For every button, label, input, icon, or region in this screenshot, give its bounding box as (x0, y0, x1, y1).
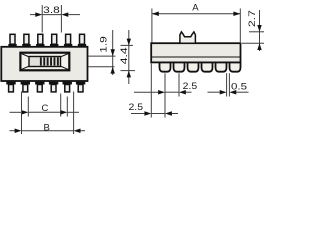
dimension 3.8 (knob width) (30, 5, 80, 33)
svg-text:4.4: 4.4 (119, 47, 129, 64)
recess slot (29, 57, 61, 67)
pin B1 (6, 82, 15, 92)
svg-text:1.9: 1.9 (98, 36, 108, 53)
svg-text:0.5: 0.5 (231, 81, 247, 91)
pin B4 (49, 82, 58, 92)
dimension 2.5 (edge to first pin) (129, 64, 179, 118)
pin B3 (35, 82, 44, 92)
svg-text:A: A (192, 3, 199, 14)
recess outer frame (20, 53, 69, 71)
pin T3 (36, 34, 44, 47)
top view body (1, 47, 87, 81)
svg-text:B: B (44, 122, 50, 133)
dimension 2.7 (actuator height) (242, 10, 264, 51)
pin S6 (230, 63, 241, 72)
dimension 1.9 (slot height) (89, 30, 116, 75)
svg-text:2.5: 2.5 (129, 102, 144, 112)
svg-text:3.8: 3.8 (43, 5, 60, 15)
pin T2 (22, 34, 30, 47)
pin S5 (216, 63, 227, 72)
dimension 2.5 (pin pitch) (134, 73, 197, 96)
dimension 0.5 (pin gap) (208, 73, 249, 96)
dimension 4.4 (side view height) (119, 30, 135, 84)
svg-text:C: C (41, 103, 48, 114)
pin B2 (21, 82, 30, 92)
pin S3 (188, 63, 199, 72)
pin B5 (62, 82, 71, 92)
pin T6 (78, 34, 86, 47)
pin B6 (76, 82, 85, 92)
slider knob serrations (40, 57, 59, 65)
pin T4 (50, 34, 58, 47)
pin S4 (202, 63, 213, 72)
side view actuator bump (180, 32, 196, 43)
side view body (151, 43, 240, 62)
pin T1 (8, 34, 16, 47)
pin S2 (174, 63, 185, 72)
pin T5 (64, 34, 72, 47)
dimension A (overall width) (152, 3, 240, 43)
dimension C (10, 94, 80, 117)
svg-text:2.7: 2.7 (247, 10, 257, 27)
pin S1 (160, 63, 171, 72)
dimension B (10, 92, 86, 135)
svg-text:2.5: 2.5 (183, 81, 198, 91)
recess bevel lines (21, 54, 68, 70)
